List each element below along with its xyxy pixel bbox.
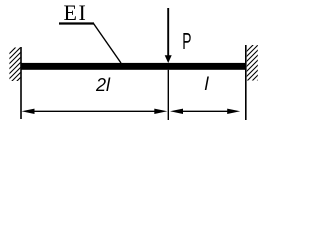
- load arrowhead: [165, 55, 172, 63]
- left wall hatching: [5, 38, 25, 98]
- svg-text:P: P: [182, 28, 191, 54]
- dim arrowhead left: [22, 109, 35, 114]
- dimension line 2l: [30, 110, 158, 112]
- dim arrowhead right (to middle): [154, 109, 167, 114]
- leader line diagonal to beam: [94, 24, 122, 64]
- dimension line l: [178, 110, 232, 112]
- middle extension line under load: [167, 70, 169, 120]
- svg-text:2l: 2l: [95, 75, 111, 95]
- beam: [21, 63, 246, 70]
- dim arrowhead right: [227, 109, 240, 114]
- left wall line / extension line: [20, 47, 22, 119]
- right wall line / extension line: [245, 45, 247, 120]
- dim arrowhead left (to middle): [170, 109, 183, 114]
- svg-text:EI: EI: [64, 0, 88, 25]
- right wall hatching: [242, 36, 262, 96]
- leader line horizontal under EI: [59, 22, 94, 24]
- load arrow P shaft: [167, 8, 169, 57]
